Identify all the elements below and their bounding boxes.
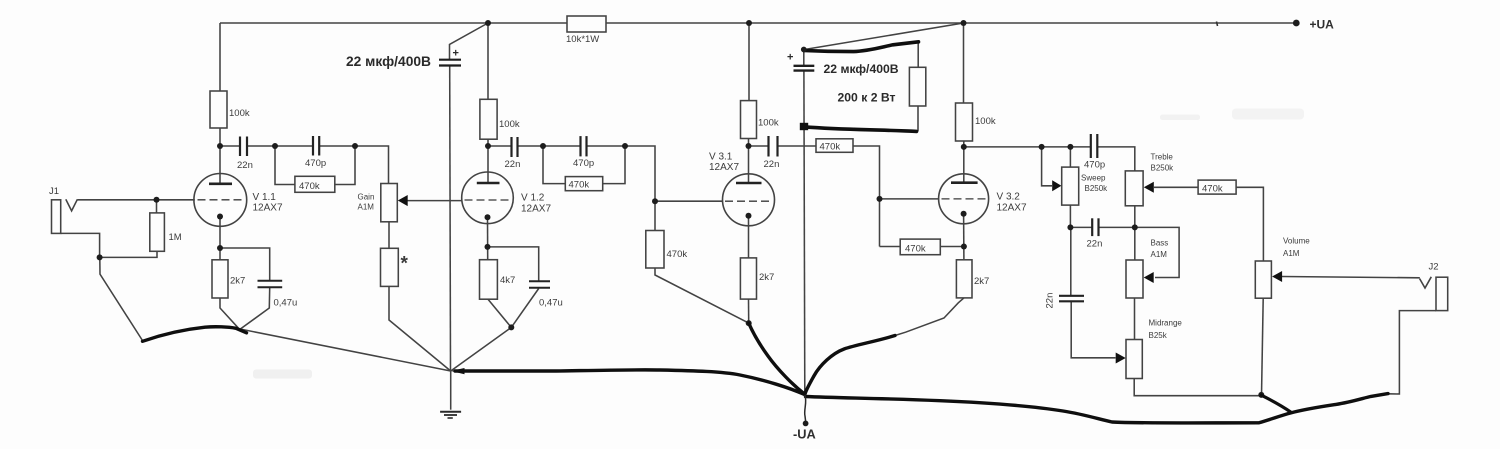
node cathode / 4k7 junction: [485, 244, 491, 250]
svg-text:B250k: B250k: [1151, 164, 1175, 173]
svg-text:Midrange: Midrange: [1149, 319, 1183, 328]
node sweep top junction: [1067, 144, 1073, 150]
wire rail drop to V1.1 plate resistor: [219, 23, 221, 91]
svg-text:0,47u: 0,47u: [539, 298, 563, 309]
wire V3.2 plate lead: [963, 141, 965, 183]
tube V3.1 envelope: [723, 174, 775, 226]
resistor 2k7 (V1.1 cathode): [212, 260, 228, 298]
wire +UA top rail: [220, 22, 1296, 24]
wire 200k top lead: [917, 42, 919, 67]
wire 22n right lead: [518, 145, 544, 147]
capacitor 470p (V1.2 bright): [581, 136, 587, 156]
resistor 2k7 (V3.1 cathode): [740, 258, 756, 299]
node V1.2 cathode (inside tube): [485, 214, 491, 220]
svg-text:B250k: B250k: [1085, 184, 1109, 193]
wire filter cap 1 negative lead down to ground node: [449, 66, 452, 371]
wire V3.2 grid: [880, 198, 940, 200]
potentiometer Sweep wiper arrow: [1052, 180, 1061, 191]
resistor 470k (V1.2 plate to V3.1 grid bias, vertical): [646, 231, 664, 269]
capacitor 22n (V1.2 coupling): [512, 137, 518, 157]
wire 22n left lead: [488, 145, 512, 147]
wire V1.2 ground V to ground node: [451, 327, 512, 371]
wire Gain pot bottom to * resistor: [388, 222, 390, 249]
svg-text:+UA: +UA: [1310, 18, 1335, 32]
node 470p right junction: [352, 143, 358, 149]
svg-text:2k7: 2k7: [974, 276, 989, 287]
potentiometer Treble B250k body: [1125, 171, 1143, 206]
svg-text:22 мкф/400В: 22 мкф/400В: [346, 54, 431, 69]
wire bass top: [1134, 227, 1136, 260]
svg-text:V 3.1: V 3.1: [709, 152, 733, 163]
wire rail drop to V3.1 plate resistor: [748, 23, 750, 101]
jack J2 tip contact: [1420, 277, 1432, 288]
svg-text:Sweep: Sweep: [1081, 174, 1106, 183]
wire 470p right lead to treble top: [1097, 147, 1135, 171]
svg-text:470k: 470k: [667, 249, 688, 260]
svg-text:470k: 470k: [820, 142, 841, 153]
resistor 2k7 (V3.2 cathode): [956, 260, 972, 298]
node cathode / 470k junction: [961, 244, 967, 250]
potentiometer Midrange wiper arrow: [1116, 353, 1126, 364]
svg-text:100k: 100k: [229, 108, 250, 119]
wire 470k grid-cathode right lead: [940, 246, 964, 248]
node treble/bass junction: [1132, 224, 1138, 230]
node V3.1 cathode (inside tube): [746, 213, 752, 219]
wire 22n right lead: [778, 145, 817, 147]
wire 470p right lead: [319, 145, 355, 147]
svg-text:12AX7: 12AX7: [997, 203, 1027, 214]
node 470p right junction: [622, 143, 628, 149]
wire 200k bottom lead: [917, 106, 919, 131]
svg-text:10k*1W: 10k*1W: [566, 34, 599, 45]
capacitor 22n (vertical, to midrange wiper): [1059, 296, 1084, 302]
svg-text:100k: 100k: [758, 118, 779, 129]
resistor 470k (V1.2 feedback, boxed label): [565, 177, 602, 191]
node V3.1 grid junction: [652, 198, 658, 204]
node V1.1 plate junction: [217, 143, 223, 149]
node volume bottom junction: [1258, 392, 1264, 398]
wire -UA pigtail: [805, 395, 806, 421]
jack J1 tip contact: [66, 199, 78, 211]
resistor 470k (V3.2 grid-cathode, boxed label): [900, 239, 940, 255]
potentiometer Volume wiper arrow: [1272, 271, 1282, 282]
svg-text:22 мкф/400В: 22 мкф/400В: [824, 62, 899, 76]
svg-text:B25k: B25k: [1149, 331, 1168, 340]
potentiometer Gain wiper arrow: [398, 195, 408, 206]
svg-text:V 1.2: V 1.2: [521, 193, 545, 204]
node V1.2 ground V junction: [508, 324, 514, 330]
wire 22n vertical bottom to midrange wiper: [1071, 302, 1115, 358]
resistor * (gain pot tail): [381, 248, 399, 286]
resistor 470k (boxed label, after V3.1 22n): [816, 139, 853, 153]
node rail junction V1.2: [485, 20, 491, 26]
svg-text:4k7: 4k7: [500, 275, 515, 286]
capacitor 22n (V1.1 coupling): [240, 137, 247, 157]
node rail junction V3.2: [961, 20, 967, 26]
wire bass bottom to midrange top: [1134, 298, 1136, 340]
svg-text:Bass: Bass: [1151, 239, 1169, 248]
wire 1M bottom lead: [100, 251, 157, 257]
tube V1.1 envelope: [194, 174, 247, 227]
thick wire volume bottom branch to bus: [1261, 395, 1291, 412]
wire 22n vertical top lead: [1070, 227, 1072, 295]
potentiometer Gain A1M body: [381, 184, 398, 222]
node 22n-470p junction: [272, 143, 278, 149]
wire treble wiper to 470k: [1154, 186, 1198, 188]
svg-text:*: *: [401, 254, 409, 275]
capacitor 470p (V1.1 bright): [313, 136, 319, 156]
wire V3.2 cathode lead: [963, 214, 965, 260]
resistor 100k (V1.1 plate): [210, 91, 227, 128]
jack J1 sleeve: [52, 200, 61, 234]
wire V1.1 cathode lead: [219, 217, 221, 260]
node filter cap 2 positive: [801, 47, 807, 53]
svg-text:A1M: A1M: [358, 203, 375, 212]
wire J1 sleeve to ground node: [61, 233, 100, 257]
thick wire cap2 minus to 200k bottom: [804, 127, 917, 132]
wire to Gain pot top: [355, 146, 389, 184]
wire 0,47u bottom diagonal: [240, 288, 270, 329]
resistor 100k (V3.1 plate): [741, 101, 757, 139]
svg-text:22n: 22n: [1045, 293, 1056, 309]
wire to 470p: [275, 145, 313, 147]
tube V1.1 plate bar: [209, 183, 232, 186]
node V1.2 plate junction: [485, 143, 491, 149]
tube V3.2 plate bar: [951, 181, 978, 184]
svg-text:12AX7: 12AX7: [709, 162, 739, 173]
wire V1.1 plate lead: [219, 128, 221, 183]
svg-text:J2: J2: [1429, 262, 1439, 273]
node small tick on rail: [1217, 22, 1218, 27]
wire rail drop to V1.2 plate resistor: [487, 23, 489, 99]
wire sweep pot top: [1069, 147, 1071, 167]
wire 22n right to treble bottom node: [1099, 226, 1135, 228]
wire 470k grid-cathode left lead: [880, 246, 901, 248]
wire grid V3.1: [655, 200, 723, 202]
svg-text:22n: 22n: [1087, 239, 1103, 250]
thick wire stage1 ground bus: [143, 327, 247, 342]
node sweep bottom junction: [1067, 224, 1073, 230]
svg-text:V 1.1: V 1.1: [253, 192, 277, 203]
svg-text:470k: 470k: [905, 244, 926, 255]
faint scan smudge right-2: [1232, 109, 1304, 120]
svg-text:470k: 470k: [1202, 184, 1223, 195]
node sweep wiper feed junction: [1039, 144, 1045, 150]
wire midrange bottom to volume bottom: [1134, 379, 1261, 396]
node V3.1 2k7 bottom junction: [746, 320, 752, 326]
capacitor 22 мкф/400В (first filter cap): [439, 60, 461, 66]
potentiometer Midrange B25k body: [1126, 340, 1142, 379]
thick taper at central ground node: [451, 368, 465, 374]
potentiometer Treble wiper arrow: [1144, 182, 1154, 193]
resistor 4k7 (V1.2 cathode): [480, 260, 498, 300]
node V3.1 plate junction: [746, 143, 752, 149]
svg-text:100k: 100k: [975, 116, 996, 127]
wire plate to tone stack: [964, 146, 1091, 148]
wire 2k7 bottom diagonal: [220, 298, 240, 329]
svg-text:V 3.2: V 3.2: [997, 192, 1021, 203]
node V3.2 grid junction: [877, 196, 883, 202]
thick wire cap2 plus to 200k top: [804, 42, 919, 52]
tube V1.2 envelope: [462, 172, 514, 224]
wire sweep wiper feed: [1042, 147, 1052, 186]
wire J1 ground diagonal to bus: [100, 257, 143, 341]
wire 22n left lead: [220, 145, 240, 147]
node -UA terminal dot: [803, 421, 809, 427]
wire to 470p: [543, 145, 581, 147]
tube V3.2 envelope: [939, 174, 989, 224]
ground symbol: [440, 412, 461, 418]
wire treble bottom: [1134, 206, 1136, 228]
svg-text:A1M: A1M: [1151, 250, 1168, 259]
wire bass wiper loop: [1136, 227, 1179, 277]
resistor 470k (V1.1 feedback, boxed label): [295, 176, 335, 192]
capacitor 470p (tone stack): [1091, 134, 1098, 158]
tube V3.1 plate bar: [736, 182, 762, 185]
tube V1.2 grid (dashed): [465, 199, 511, 201]
node J1 ground junction: [97, 254, 103, 260]
svg-text:22n: 22n: [505, 159, 521, 170]
potentiometer Bass A1M body: [1126, 260, 1143, 298]
svg-text:+: +: [787, 52, 793, 64]
wire V1.2 plate lead: [487, 139, 489, 183]
svg-text:Volume: Volume: [1283, 237, 1310, 246]
capacitor 22n (V3.1 coupling): [769, 136, 778, 157]
svg-text:A1M: A1M: [1283, 249, 1300, 258]
faint scan smudge left: [253, 370, 312, 379]
tube V3.2 grid (dashed): [942, 198, 987, 200]
svg-text:+: +: [453, 48, 459, 60]
node 22n-470p junction: [540, 143, 546, 149]
node rail junction V3.1: [746, 20, 752, 26]
resistor 1M (grid leak): [150, 213, 165, 251]
wire 2k7 bottom thin diagonal: [895, 298, 964, 336]
resistor 470k (treble wiper to volume, boxed label): [1198, 180, 1236, 194]
wire rail diagonal to filter cap 1: [450, 23, 489, 59]
svg-text:0,47u: 0,47u: [274, 298, 298, 309]
wire 22n left lead: [749, 145, 769, 147]
wire sweep bottom to 22n: [1070, 205, 1092, 227]
potentiometer Sweep B250k body: [1062, 167, 1079, 205]
node grid / 1M junction: [154, 197, 160, 203]
wire 470p right lead: [587, 145, 626, 147]
wire volume wiper to J2: [1282, 277, 1420, 278]
jack J2 sleeve: [1436, 277, 1448, 310]
svg-text:22n: 22n: [764, 159, 780, 170]
svg-text:J1: J1: [49, 186, 59, 197]
wire to V3.1 grid node: [625, 146, 655, 231]
wire 0,47u bottom diagonal: [511, 289, 538, 328]
node cathode / 2k7 junction: [217, 245, 223, 251]
resistor 100k (V1.2 plate): [480, 99, 497, 139]
node V1.1 cathode (inside tube): [217, 214, 223, 220]
wire volume pot bottom: [1262, 298, 1264, 396]
svg-text:470k: 470k: [299, 181, 320, 192]
node square junction on negative lead: [800, 123, 808, 130]
svg-text:470p: 470p: [1084, 160, 1105, 171]
svg-text:-UA: -UA: [793, 427, 816, 442]
node +UA rail end dot: [1293, 20, 1300, 27]
wire 22n right lead: [247, 145, 275, 147]
wire * resistor bottom to ground node: [389, 286, 451, 371]
wire J1 tip to grid: [77, 199, 194, 201]
wire 470k to volume top: [1236, 187, 1263, 261]
thick wire central ground to -UA node: [455, 370, 805, 395]
node V3.2 plate junction: [961, 144, 967, 150]
thick wire V3.2 cathode to -UA node: [805, 336, 895, 395]
wire V1.2 cathode lead: [487, 217, 489, 260]
resistor 100k (V3.2 plate): [956, 103, 973, 141]
wire ground symbol stem: [450, 371, 452, 410]
wire 470k feedback left: [275, 146, 295, 185]
tube V3.1 grid (dashed): [725, 200, 772, 202]
potentiometer Volume A1M body: [1255, 261, 1271, 298]
svg-text:470k: 470k: [569, 180, 590, 191]
wire stage1 ground to central ground node: [240, 329, 451, 371]
wire 1M top lead: [156, 200, 158, 213]
wire rail drop to V3.2 plate resistor: [963, 23, 965, 103]
wire J2 ground return: [1388, 311, 1436, 394]
svg-text:200 к 2 Вт: 200 к 2 Вт: [838, 91, 896, 105]
thick wire -UA node to J2 ground: [806, 394, 1389, 423]
svg-text:22n: 22n: [237, 160, 253, 171]
svg-text:470p: 470p: [305, 158, 326, 169]
capacitor 22n (sweep-bass horizontal): [1092, 218, 1098, 236]
tube V1.1 grid (dashed): [198, 199, 243, 201]
capacitor 0,47u (V1.1 cathode bypass): [258, 281, 283, 287]
wire filter cap 2 positive lead: [803, 50, 805, 66]
wire V3.1 cathode lead: [748, 216, 750, 258]
wire cathode to bypass cap: [488, 247, 539, 281]
wire 470k feedback right: [603, 146, 625, 184]
wire filter cap 2 negative lead down to -UA node: [803, 71, 806, 396]
wire cathode to bypass cap: [220, 248, 270, 280]
faint scan smudge right: [1160, 115, 1200, 121]
svg-text:1M: 1M: [169, 232, 182, 243]
wire 470k feedback left: [543, 146, 565, 184]
wire Gain wiper to V1.2 grid: [408, 200, 463, 202]
node V3.2 cathode (inside tube): [961, 211, 967, 217]
wire 4k7 bottom diagonal: [488, 299, 511, 327]
wire 470k feedback right: [335, 146, 355, 185]
resistor 10k*1W (rail dropper): [567, 16, 606, 32]
svg-text:2k7: 2k7: [230, 276, 245, 287]
wire 470k to V3.2 grid corner: [853, 146, 880, 247]
svg-text:2k7: 2k7: [759, 272, 774, 283]
svg-text:12AX7: 12AX7: [521, 204, 551, 215]
svg-text:Gain: Gain: [358, 193, 375, 202]
potentiometer Bass wiper arrow: [1144, 272, 1154, 283]
tube V1.2 plate bar: [477, 182, 500, 185]
wire V3.1 2k7 bottom: [748, 299, 750, 323]
thick wire V3.1 cathode to -UA node: [749, 323, 805, 394]
capacitor 22 мкф/400В (second filter cap): [794, 66, 815, 71]
wire V3.1 plate lead: [748, 139, 750, 184]
svg-text:100k: 100k: [499, 119, 520, 130]
capacitor 0,47u (V1.2 cathode bypass): [529, 281, 550, 288]
svg-text:470p: 470p: [573, 158, 594, 169]
svg-text:Treble: Treble: [1151, 153, 1174, 162]
resistor 200 к 2 Вт (bleeder): [909, 67, 925, 106]
svg-text:12AX7: 12AX7: [253, 203, 283, 214]
wire 470k bottom to -UA node: [655, 268, 749, 323]
wire rail diagonal to filter cap 2: [805, 23, 964, 50]
